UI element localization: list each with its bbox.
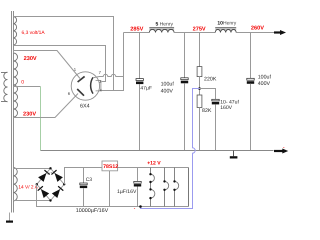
svg-text:275V: 275V [193,27,206,33]
svg-text:400V: 400V [258,81,271,87]
svg-text:1µF/16V: 1µF/16V [117,189,137,195]
wire 230V top to plate 1 [14,51,81,79]
wire bridge minus down to LV return [37,184,189,206]
svg-text:6X4: 6X4 [80,103,90,109]
ground rail [41,150,274,152]
svg-text:100uf: 100uf [258,74,272,80]
capacitor 1uF/16V [117,181,141,195]
wire 47uF branch top [139,33,141,79]
svg-text:C3: C3 [86,177,93,183]
svg-text:5 Henry: 5 Henry [156,22,174,28]
diode D3 bottom-left [41,189,49,198]
wire C3 bottom [83,188,85,206]
wire 10-47uf bottom [215,104,217,150]
node junction dot [198,87,201,90]
diode D2 top-right [55,173,63,182]
svg-text:78S12: 78S12 [103,164,118,170]
wire 1uF bottom [137,187,139,207]
svg-text:260V: 260V [251,26,264,32]
wire 220K branch top [199,33,201,67]
capacitor C3 10000uF [76,177,109,214]
heater branch C [175,168,179,207]
choke L1 5 Henry [149,22,174,33]
svg-text:+12 V: +12 V [147,160,161,166]
bridge corner dots [49,167,51,169]
wire heater box right edge [188,168,190,207]
wire 1uF branch [137,168,139,182]
svg-text:82K: 82K [202,108,212,114]
plate pin 6 [77,89,84,96]
svg-text:br1: br1 [47,172,52,176]
node heater return dot [139,205,142,208]
wire 14V top to bridge [14,168,51,169]
svg-text:47µF: 47µF [140,85,152,91]
winding primary [1,72,8,102]
svg-text:10000µF/16V: 10000µF/16V [76,208,109,214]
svg-text:400V: 400V [161,89,174,95]
wire 100uf left branch top [184,33,186,78]
choke L2 10 Henry [215,21,237,33]
node 285V rail [124,32,150,34]
wire 260V rail [236,32,280,34]
winding HV secondary 2x230V [14,53,18,117]
wire node to cap 10-47uf [200,89,216,100]
wire 275V rail [174,32,215,34]
wire 100uf right branch top [250,33,252,79]
svg-text:230V: 230V [24,56,37,62]
wire 82K bottom [199,108,201,151]
resistor 220K [197,67,217,83]
capacitor 100uf 400V left [161,78,189,95]
wire 100uf right bottom [250,84,252,151]
diode D1 top-left [38,173,46,182]
svg-text:220K: 220K [204,77,217,83]
svg-text:10Henry: 10Henry [217,21,236,27]
wire C3 branch [83,168,85,184]
capacitor 10-47uf 160V [212,99,240,111]
wire green center tap to ground rail [40,87,42,151]
svg-text:4: 4 [100,89,102,93]
wire cathode to B+ with hops over heater wires [93,74,124,77]
capacitor 47uF [136,79,152,92]
svg-text:160V: 160V [220,105,232,111]
svg-text:230V: 230V [23,112,36,118]
bridge rectifier br1 [36,167,66,202]
wire regulator ground pin [109,171,111,207]
wire cathode node up to 285V rail [123,33,125,77]
svg-text:6,3 volt/1A: 6,3 volt/1A [22,30,46,36]
wire 230V bottom to plate 6 [14,94,79,118]
heater branch B [165,168,169,207]
regulator U1 78S12 [102,161,118,171]
plate pin 1 [78,76,85,82]
transformer T1 core [12,11,14,213]
wire 220K to node [199,77,201,95]
wire bridge plus up to LV rail [65,168,103,185]
wire 14V bottom to bridge [14,200,51,203]
heater bracket [96,81,101,91]
svg-text:100uf: 100uf [161,82,175,88]
wire regulator output rail [118,167,189,169]
ground symbol mid [230,151,238,159]
wire center tap 0 [14,86,41,88]
svg-text:0: 0 [21,80,24,86]
wire cathode tie to heater pin4 [114,77,124,91]
arrow ground out [274,149,288,154]
diode D4 bottom-right [52,189,60,198]
svg-text:3: 3 [99,80,101,84]
winding 6.3V secondary [14,17,17,46]
resistor 82K [197,95,212,114]
wire 6.3V top to heater pin4 [14,17,114,91]
arrow B+ out [274,30,286,35]
wire 47uF bottom [139,84,141,150]
ground (core) [6,213,13,223]
wire 6.3V bottom to heater pin3 [14,46,106,82]
cathode arc [91,77,93,93]
winding 14V secondary [14,168,18,201]
svg-text:285V: 285V [130,27,143,33]
wire blue heater elevation [141,89,200,209]
tube V1 6X4 envelope [71,72,99,100]
capacitor 100uf 400V right [247,74,272,87]
heater string branch A [151,168,155,207]
svg-text:14 V/ 2 A: 14 V/ 2 A [18,185,38,191]
wire 100uf left bottom [184,83,186,150]
